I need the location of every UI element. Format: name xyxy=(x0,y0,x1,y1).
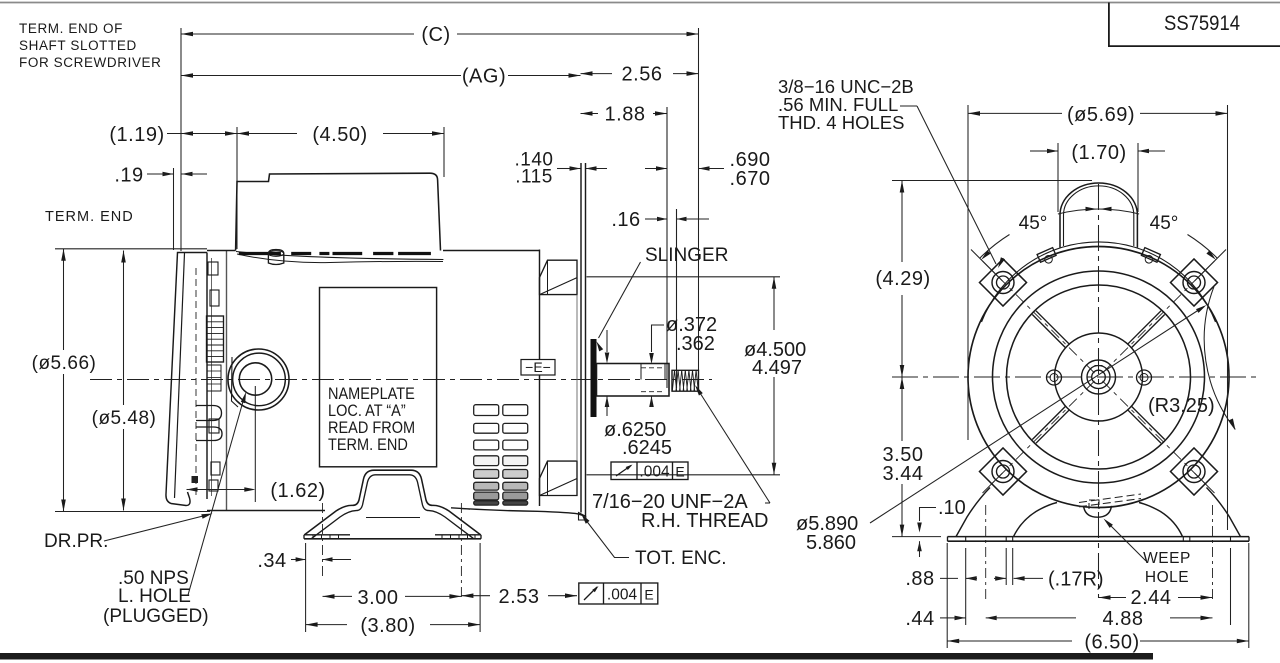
svg-text:−E−: −E− xyxy=(525,359,551,375)
svg-text:TERM. END: TERM. END xyxy=(328,436,408,454)
extension line x237 conduit box xyxy=(236,127,238,249)
svg-text:.88: .88 xyxy=(905,568,934,590)
bottom table band xyxy=(0,653,1153,660)
svg-text:SLINGER: SLINGER xyxy=(645,245,728,266)
dimension 2.56 xyxy=(581,73,613,75)
base inner webs xyxy=(1014,503,1058,537)
terminal dark plug xyxy=(192,476,199,483)
svg-text:L. HOLE: L. HOLE xyxy=(118,586,191,607)
svg-text:(.17R): (.17R) xyxy=(1048,569,1104,591)
svg-text:FOR SCREWDRIVER: FOR SCREWDRIVER xyxy=(19,55,162,70)
dimension diameter 4.500/4.497 xyxy=(587,276,781,278)
svg-text:(C): (C) xyxy=(421,24,450,46)
base outer webs xyxy=(956,488,990,537)
extension line terminal face vertical x181 xyxy=(180,28,182,251)
end bell bottom bump xyxy=(540,461,578,495)
svg-text:(6.50): (6.50) xyxy=(1084,632,1139,654)
svg-text:(PLUGGED): (PLUGGED) xyxy=(103,606,209,627)
centerline left view xyxy=(90,379,712,381)
cross ribs xyxy=(1128,311,1161,344)
terminal bracket mounting face xyxy=(206,253,208,500)
svg-text:SHAFT SLOTTED: SHAFT SLOTTED xyxy=(19,38,137,53)
terminal strip lower lines xyxy=(207,365,221,391)
terminal lower bolt xyxy=(209,419,219,433)
slinger disc xyxy=(591,339,597,417)
dimension 2.44 xyxy=(1099,597,1127,599)
terminal cover hidden line xyxy=(195,268,197,496)
datum E flag xyxy=(521,360,555,376)
dimension (6.50) xyxy=(947,640,1072,642)
svg-text:4.88: 4.88 xyxy=(1103,608,1144,630)
centerline vertical right view xyxy=(1098,184,1100,598)
svg-text:1.88: 1.88 xyxy=(605,104,646,126)
dimension 45deg arcs xyxy=(1058,209,1099,214)
nameplate rectangle xyxy=(320,288,437,467)
svg-text:.004: .004 xyxy=(639,464,670,481)
body top extension line left xyxy=(55,248,207,250)
top bolt bumps xyxy=(1037,248,1058,267)
dimension diameter 5.66 xyxy=(63,249,65,350)
conduit box bolt head xyxy=(268,250,283,265)
bearing hub circle xyxy=(1055,333,1143,421)
svg-text:.6245: .6245 xyxy=(622,437,672,459)
shaft center circles xyxy=(1082,360,1116,394)
conduit box bottom edge curves xyxy=(236,252,443,260)
dimension diameter 5.890/5.860 leader through center xyxy=(870,307,1204,524)
conduit box gasket dark dashes xyxy=(239,252,281,255)
shaft thread 7/16-20 xyxy=(672,370,699,391)
svg-text:READ FROM: READ FROM xyxy=(328,419,415,437)
extension lines foot xyxy=(305,543,307,632)
dimension 3.00 xyxy=(323,595,353,597)
extension lines below base xyxy=(946,543,948,648)
svg-text:(ø5.48): (ø5.48) xyxy=(92,408,157,429)
foot flange hatch ticks xyxy=(312,535,314,539)
svg-text:(4.29): (4.29) xyxy=(875,268,930,290)
svg-text:.362: .362 xyxy=(676,333,715,355)
shaft body xyxy=(597,364,670,397)
dimension (4.29) xyxy=(901,181,903,263)
C-face flange lines xyxy=(580,163,582,513)
dimension (3.80) xyxy=(306,624,347,626)
extension line x444 conduit box right xyxy=(443,127,445,177)
svg-text:2.44: 2.44 xyxy=(1131,587,1172,609)
shaft flat ticks xyxy=(640,364,642,380)
svg-text:4.497: 4.497 xyxy=(752,357,802,379)
lead finger 2 xyxy=(196,427,222,441)
diagonal centerlines 45deg xyxy=(1103,267,1209,373)
C-face flange circle r106 xyxy=(993,271,1205,483)
foot inner chord line xyxy=(366,517,420,519)
svg-text:(R3.25): (R3.25) xyxy=(1148,395,1215,417)
feature control frame runout .004 E at shaft xyxy=(611,462,688,480)
shaft undercut groove xyxy=(668,370,670,391)
svg-text:.10: .10 xyxy=(938,497,966,519)
end bell right edge xyxy=(539,250,541,507)
title block box SS75914 xyxy=(1109,3,1280,47)
svg-text:.34: .34 xyxy=(257,550,286,572)
svg-text:(1.70): (1.70) xyxy=(1071,142,1126,164)
svg-text:LOC. AT “A”: LOC. AT “A” xyxy=(328,402,406,420)
svg-text:3.44: 3.44 xyxy=(883,463,924,485)
svg-text:(AG): (AG) xyxy=(462,66,506,88)
dimension diameter 5.69 xyxy=(968,112,1062,114)
dimension 1.88 xyxy=(581,113,599,115)
dimension (.17R) xyxy=(1014,576,1025,581)
foot baseline xyxy=(304,538,481,540)
svg-text:(ø5.69): (ø5.69) xyxy=(1067,104,1135,126)
svg-text:.16: .16 xyxy=(611,209,640,231)
extension line shaft end x698.5 xyxy=(698,28,700,392)
svg-text:(4.50): (4.50) xyxy=(312,124,367,146)
svg-text:WEEP: WEEP xyxy=(1143,550,1191,567)
weep hole bump xyxy=(1084,506,1112,517)
svg-text:.44: .44 xyxy=(905,608,934,630)
body end weld line xyxy=(226,251,228,512)
end bell top bump xyxy=(540,260,578,294)
motor body top line xyxy=(207,250,236,252)
svg-text:DR.PR.: DR.PR. xyxy=(44,531,108,552)
svg-text:.004: .004 xyxy=(607,587,638,604)
reference line top of dome xyxy=(892,180,1092,182)
centerline horizontal right view xyxy=(892,376,1256,378)
top border line xyxy=(0,2,1280,4)
svg-text:2.56: 2.56 xyxy=(622,64,663,86)
svg-text:.19: .19 xyxy=(114,165,143,187)
terminal strip ladder xyxy=(207,316,224,362)
svg-text:.115: .115 xyxy=(515,167,553,188)
foot mounting hole centerlines dashed xyxy=(322,503,324,578)
weep hole hidden lines xyxy=(1079,494,1141,503)
lead finger 1 xyxy=(196,406,222,421)
dimension (C) xyxy=(181,33,414,35)
shell seam arc r125 xyxy=(982,242,1216,322)
svg-text:R.H. THREAD: R.H. THREAD xyxy=(641,510,768,532)
svg-text:45°: 45° xyxy=(1150,213,1179,234)
dimension (1.62) xyxy=(254,386,256,502)
dimension (AG) xyxy=(181,75,461,77)
svg-text:45°: 45° xyxy=(1019,213,1048,234)
mounting tabs with holes xyxy=(1171,259,1218,306)
svg-text:2.53: 2.53 xyxy=(499,586,540,608)
svg-text:TOT. ENC.: TOT. ENC. xyxy=(635,548,727,569)
dimension 3.50/3.44 xyxy=(901,377,903,441)
terminal end cover outline xyxy=(166,253,207,506)
extension line x173.5 xyxy=(173,168,175,250)
svg-text:.670: .670 xyxy=(730,168,771,190)
C-face flange bottom foot xyxy=(579,513,586,521)
hub side bosses xyxy=(1047,370,1062,385)
feature control frame runout .004 E datum xyxy=(579,583,658,604)
body bottom extension line left xyxy=(55,511,210,513)
rabbet circle r92 xyxy=(1007,285,1191,469)
dimension diameter .6250/.6245 with leader xyxy=(606,330,608,352)
svg-text:SS75914: SS75914 xyxy=(1164,12,1240,35)
45deg tab extension lines xyxy=(971,250,999,278)
svg-text:(ø5.66): (ø5.66) xyxy=(32,353,97,374)
NPS boss circles xyxy=(228,349,289,410)
dimension diameter 5.48 xyxy=(123,251,125,406)
svg-text:TERM. END OF: TERM. END OF xyxy=(19,21,123,36)
foot outer profile xyxy=(305,470,481,535)
svg-text:5.860: 5.860 xyxy=(806,532,856,554)
terminal cover rim line xyxy=(175,253,185,498)
terminal board upper blocks xyxy=(208,262,218,275)
svg-text:(3.80): (3.80) xyxy=(360,615,415,637)
svg-text:THD. 4 HOLES: THD. 4 HOLES xyxy=(778,112,904,133)
svg-text:NAMEPLATE: NAMEPLATE xyxy=(328,385,415,403)
svg-text:E: E xyxy=(675,464,684,480)
base plate xyxy=(948,540,1250,542)
dimension 2.53 xyxy=(461,595,490,597)
svg-text:3.00: 3.00 xyxy=(358,587,399,609)
svg-text:E: E xyxy=(644,587,653,603)
vent louvers xyxy=(474,405,499,416)
svg-text:(1.19): (1.19) xyxy=(109,124,164,146)
body outer circle arcs r130 xyxy=(968,247,1229,508)
svg-text:TERM. END: TERM. END xyxy=(45,209,134,225)
conduit dome xyxy=(1060,183,1137,248)
svg-text:HOLE: HOLE xyxy=(1145,569,1189,586)
foot inner profile xyxy=(312,475,474,539)
conduit box cover xyxy=(236,173,441,250)
base pad step ticks xyxy=(965,537,967,542)
motor body bottom line xyxy=(207,510,325,512)
svg-text:(1.62): (1.62) xyxy=(270,480,325,502)
extension lines shaft slot x667 x676.5 xyxy=(666,107,668,388)
dimension (4.50) xyxy=(237,133,297,135)
foot flange top lines xyxy=(304,534,350,536)
dimension R3.25 arc with arrow xyxy=(1204,287,1235,430)
